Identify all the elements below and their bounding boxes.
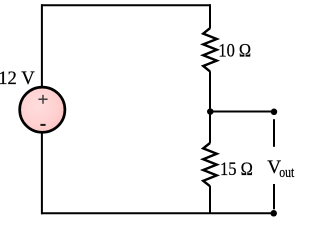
wire left lower: source bottom to bottom corner — [41, 132, 43, 214]
svg-text:12 V: 12 V — [0, 68, 35, 89]
dashed measurement line lower segment — [273, 184, 275, 209]
minus sign inside source — [40, 124, 45, 126]
svg-text:10 Ω: 10 Ω — [218, 41, 251, 62]
wire bottom (42,213)-(274,213) — [41, 212, 274, 214]
wire right lower: R2 bottom to bottom wire — [209, 186, 211, 214]
wire right middle: R1 bottom through node A to R2 top — [209, 71, 211, 143]
wire left upper: top corner down to source top — [41, 4, 43, 87]
resistor R1 10ohm zigzag — [203, 28, 217, 71]
plus sign inside source — [38, 95, 47, 104]
voltage source V1 circle — [20, 87, 65, 132]
svg-text:15 Ω: 15 Ω — [220, 159, 253, 180]
wire top (42,5)-(210,5) — [41, 4, 210, 6]
wire middle tap (210,111.5)-(274,111.5) — [210, 111, 274, 113]
wire right upper: top corner to resistor R1 top — [209, 4, 211, 28]
svg-text:out: out — [279, 165, 294, 181]
node B output top terminal dot — [271, 109, 278, 116]
resistor R2 15ohm zigzag — [203, 143, 217, 186]
node C output bottom terminal dot — [270, 210, 277, 217]
dashed measurement line upper segment — [273, 119, 275, 147]
node A junction dot at tap — [207, 108, 214, 115]
